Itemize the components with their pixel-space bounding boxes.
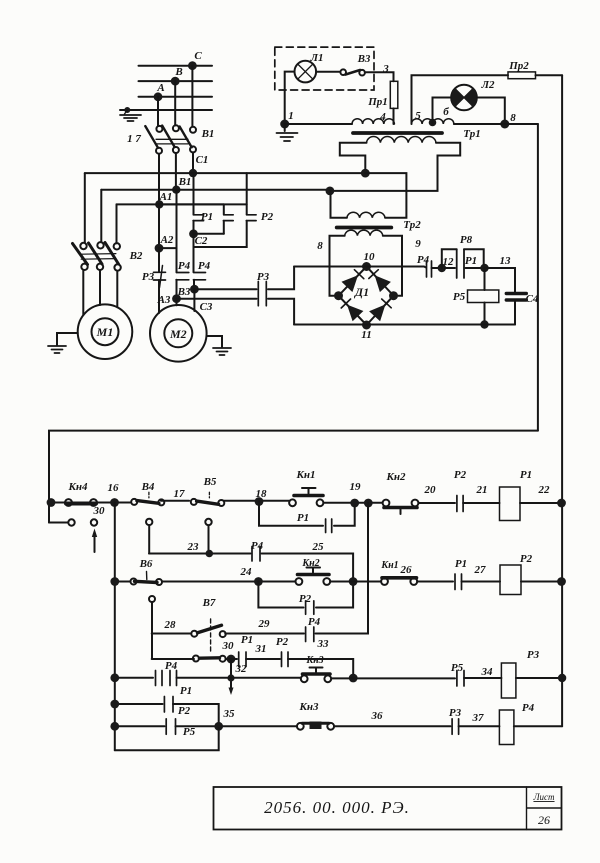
ground M2 — [207, 336, 222, 347]
switch B1 pole1 — [156, 126, 162, 132]
svg-text:Кн4: Кн4 — [67, 481, 88, 493]
switch B1 coupling bar — [156, 139, 188, 144]
node 30 — [227, 655, 236, 664]
wire L1 left to node 1 — [285, 72, 295, 124]
contact P1 (power, two poles) — [159, 203, 224, 205]
svg-text:Р1: Р1 — [520, 469, 532, 481]
wire B down to B1 — [174, 81, 176, 125]
svg-text:32: 32 — [235, 663, 248, 675]
control feed top wire — [49, 431, 538, 523]
node 25 — [349, 577, 358, 586]
title block frame — [214, 787, 562, 830]
wire A3 to motor — [176, 299, 178, 306]
wire 33 — [288, 659, 353, 678]
svg-text:А1: А1 — [159, 191, 173, 203]
svg-text:В1: В1 — [201, 128, 215, 140]
button Kn3 NC rung5 — [297, 723, 304, 730]
wire C down to B1 — [191, 66, 193, 126]
wires B2 to motor M1 — [83, 270, 117, 315]
svg-text:18: 18 — [256, 488, 268, 500]
svg-text:9: 9 — [415, 238, 421, 250]
rung3 wire — [115, 677, 153, 679]
svg-text:Р2: Р2 — [178, 705, 191, 717]
svg-text:27: 27 — [474, 564, 487, 576]
node C1 — [189, 169, 197, 177]
wire C2 column — [193, 173, 195, 204]
wire Kn1 to 19 — [323, 502, 382, 504]
wire 22 — [520, 502, 562, 504]
svg-text:В5: В5 — [203, 476, 217, 488]
wire B1 to P4 contact — [176, 190, 178, 273]
switch B7 — [191, 631, 197, 637]
svg-text:Кн3: Кн3 — [305, 655, 323, 666]
node rung3-rail — [558, 674, 566, 682]
svg-text:А: А — [156, 82, 164, 94]
wire B3 to motor — [193, 289, 195, 311]
rail from node 8 down — [537, 124, 539, 431]
svg-text:Кн2: Кн2 — [385, 471, 406, 483]
svg-text:20: 20 — [424, 484, 437, 496]
switch B5 — [191, 499, 197, 505]
node 32 cross — [227, 674, 234, 681]
node PE — [124, 107, 130, 113]
svg-text:31: 31 — [255, 643, 267, 655]
svg-text:В3: В3 — [177, 286, 191, 298]
braking line upper (B3 to P3) — [194, 267, 294, 290]
arrow 32 — [230, 659, 232, 689]
wire to node 35 — [176, 725, 298, 727]
wire L2 right to node 8 — [477, 98, 505, 125]
switch B2 pole2 — [97, 242, 103, 248]
diode D1a — [342, 275, 359, 292]
SECTION:LABELS — [67, 50, 550, 738]
svg-text:11: 11 — [361, 329, 371, 341]
phase line B — [139, 80, 213, 82]
svg-text:С4: С4 — [526, 293, 539, 305]
wire 13 to C4 — [485, 268, 516, 292]
svg-text:4: 4 — [379, 111, 386, 123]
svg-text:8: 8 — [510, 112, 516, 124]
node A2 — [155, 244, 164, 253]
button Kn4 NC — [65, 499, 72, 506]
node 33 — [349, 674, 358, 683]
wire C2 to P4 contact — [193, 234, 195, 272]
node C2 — [189, 229, 198, 238]
svg-text:Р3: Р3 — [142, 271, 155, 283]
phase line C — [139, 65, 213, 67]
wire C1 feed line — [85, 172, 366, 174]
row29 wire — [225, 503, 368, 634]
svg-text:Р2: Р2 — [454, 469, 467, 481]
svg-text:2056. 00. 000. РЭ.: 2056. 00. 000. РЭ. — [264, 798, 410, 817]
svg-text:Р1: Р1 — [297, 512, 309, 524]
bridge D1 diamond — [339, 267, 394, 326]
Tr2 secondary right lead to bridge — [383, 236, 402, 296]
ground M1 — [57, 333, 78, 345]
wire B3 to fuse Pr1 — [365, 72, 394, 81]
contact P1 (dc) plates — [457, 249, 464, 278]
svg-text:Р1: Р1 — [201, 211, 213, 223]
svg-text:В1: В1 — [178, 176, 192, 188]
node 1 — [280, 120, 289, 129]
svg-text:Р5: Р5 — [183, 726, 196, 738]
svg-text:12: 12 — [443, 256, 455, 268]
svg-text:33: 33 — [317, 638, 330, 650]
wire fuse to winding — [393, 108, 395, 124]
switch 30 — [193, 656, 199, 662]
wire Kn4 to 16 — [97, 502, 130, 504]
wire 26 — [417, 581, 453, 583]
node 24 — [254, 577, 263, 586]
braking line lower (A3 to P3) — [177, 299, 295, 325]
diode D1c — [347, 305, 363, 322]
wire 17 — [161, 500, 189, 502]
wire winding to node 8 and corner — [454, 123, 538, 125]
svg-text:Лист: Лист — [532, 792, 555, 802]
wire C1 to B2 pole1 — [84, 173, 86, 243]
wire line 11 — [294, 324, 515, 326]
relay coil P4 — [499, 710, 514, 745]
svg-text:Д1: Д1 — [354, 285, 369, 299]
svg-text:Р8: Р8 — [460, 234, 473, 246]
wire to node 12 — [432, 267, 442, 269]
button Kn2 NO — [296, 578, 303, 585]
contact P1 plates rung2 — [455, 574, 462, 590]
wire rung3 right — [331, 677, 455, 679]
switch B2 pole3 — [114, 243, 120, 249]
svg-text:26: 26 — [538, 813, 550, 827]
switch B2 pole1 — [80, 243, 86, 249]
Tr2 core — [337, 226, 392, 230]
diode D1b — [375, 275, 391, 292]
svg-text:26: 26 — [400, 564, 413, 576]
wire A1 feed line — [117, 203, 247, 205]
node rail2-rung3 — [110, 673, 119, 682]
node 8 — [500, 120, 509, 129]
wire 27 — [462, 581, 501, 583]
rung5 wire — [115, 725, 165, 727]
wire A1 to B2 pole3 — [116, 204, 118, 243]
svg-text:30: 30 — [222, 640, 235, 652]
contact P4 no2 — [193, 273, 205, 280]
motor M1 — [78, 304, 133, 359]
svg-text:Л2: Л2 — [480, 79, 495, 91]
node 10 — [362, 262, 371, 271]
svg-text:В4: В4 — [141, 481, 155, 493]
switch B1 pole3 — [190, 127, 196, 133]
svg-text:Р4: Р4 — [522, 702, 535, 714]
svg-text:М2: М2 — [169, 327, 187, 341]
button Kn4 pole2 stub — [49, 522, 68, 524]
node Tr2-pri-left — [326, 187, 335, 196]
transformer Tr1 primary winding right — [412, 119, 454, 124]
title block divider — [527, 787, 562, 830]
relay coil P3 — [501, 663, 516, 698]
lamp L1 — [295, 61, 317, 83]
contact P5 plates rung5 — [166, 719, 175, 735]
svg-text:24: 24 — [240, 566, 253, 578]
node 19 — [350, 499, 359, 508]
svg-text:Р3: Р3 — [257, 271, 270, 283]
node A — [154, 92, 163, 101]
svg-text:36: 36 — [371, 710, 384, 722]
svg-text:25: 25 — [312, 541, 325, 553]
rail2 — [114, 503, 116, 751]
rung4 to node35 — [173, 704, 219, 726]
bottom return wire — [115, 728, 219, 750]
svg-text:Р1: Р1 — [455, 558, 467, 570]
contact P3 double plates — [258, 282, 266, 306]
svg-text:Р5: Р5 — [453, 291, 466, 303]
wire 21 — [463, 502, 499, 504]
svg-text:Р1: Р1 — [180, 685, 192, 697]
node 11 — [362, 321, 371, 330]
svg-text:Пр2: Пр2 — [508, 60, 529, 72]
svg-text:В: В — [174, 66, 182, 78]
node B1 — [172, 186, 180, 194]
svg-text:Р4: Р4 — [178, 260, 191, 272]
svg-text:В7: В7 — [202, 597, 216, 609]
contact P2 plates rung1 — [457, 496, 463, 512]
node rail1-rung1 — [47, 498, 56, 507]
transformer Tr1 primary winding left — [352, 119, 394, 124]
wire A2 stub right — [159, 247, 177, 249]
phase line A — [139, 96, 213, 98]
Tr1 secondary left lead step — [340, 143, 367, 173]
contact P3 plates rung5 — [452, 719, 459, 735]
svg-text:21: 21 — [476, 484, 488, 496]
node 13 — [480, 264, 488, 272]
contact P2 hold branch — [258, 582, 353, 608]
button Kn2 NC — [383, 500, 390, 507]
svg-text:35: 35 — [223, 708, 236, 720]
wire rung3 mid — [177, 677, 302, 679]
contact P8 bridge — [442, 249, 484, 268]
switch B4 pole2 stub — [146, 519, 152, 525]
node A3 — [172, 294, 181, 303]
svg-text:Пр1: Пр1 — [367, 96, 388, 108]
svg-text:Р3: Р3 — [527, 649, 540, 661]
Tr1 core — [353, 131, 442, 135]
wire 6 up to lamp L2 — [433, 98, 452, 125]
relay coil P5 — [484, 268, 486, 290]
contact P4 (dc) plates — [427, 261, 432, 277]
wire 31 — [246, 658, 280, 660]
switch B6 — [131, 579, 137, 585]
wire node10 right to P4 — [367, 267, 427, 268]
svg-text:22: 22 — [538, 484, 551, 496]
svg-text:16: 16 — [108, 482, 120, 494]
svg-text:Тр1: Тр1 — [463, 128, 480, 140]
svg-text:30: 30 — [93, 505, 106, 517]
svg-text:23: 23 — [187, 541, 200, 553]
node rail2-rung5 — [110, 722, 119, 731]
svg-text:С3: С3 — [200, 301, 213, 313]
svg-text:17: 17 — [174, 488, 186, 500]
wire coil P3 to rail — [516, 677, 562, 679]
wire C column down to C1 node — [192, 152, 194, 173]
svg-text:Р5: Р5 — [451, 662, 464, 674]
svg-text:А3: А3 — [157, 294, 171, 306]
node D1 left — [334, 291, 343, 300]
wire 37 — [459, 725, 500, 727]
svg-text:Р2: Р2 — [276, 636, 289, 648]
svg-text:С: С — [194, 50, 202, 62]
diode D1d — [369, 305, 385, 322]
contact P2 (power) — [246, 173, 248, 215]
svg-text:Р4: Р4 — [308, 616, 321, 628]
rung4 wire — [115, 703, 163, 705]
node rung2-rail — [557, 577, 566, 586]
node C — [188, 61, 197, 70]
contact P1 hold branch — [259, 502, 355, 526]
switch B5 pole2 stub — [205, 519, 211, 525]
node on line 11 — [480, 320, 488, 328]
contact P3 NC (A2 line) — [158, 248, 160, 272]
svg-text:Кн1: Кн1 — [380, 560, 398, 571]
wire Pr2 to right rail — [536, 74, 563, 76]
svg-text:5: 5 — [415, 110, 421, 122]
wire 20 — [418, 502, 455, 504]
wire 12 to 13 — [445, 267, 455, 269]
dashed enclosure — [275, 47, 374, 90]
svg-text:Р4: Р4 — [198, 260, 211, 272]
fuse Pr1 — [390, 81, 398, 108]
node 16 — [110, 498, 119, 507]
svg-text:1 7: 1 7 — [127, 133, 141, 145]
transformer Tr1 secondary winding — [367, 137, 437, 143]
svg-text:Р3: Р3 — [449, 707, 462, 719]
svg-text:10: 10 — [364, 251, 376, 263]
contact P2 plates row31 — [282, 652, 289, 667]
node 23 — [206, 550, 214, 558]
switch B6 pole2 stub — [149, 596, 155, 602]
svg-text:В3: В3 — [357, 53, 371, 65]
wire A down to B1 — [157, 97, 159, 126]
rung2 wire — [115, 581, 130, 583]
svg-text:1: 1 — [288, 110, 294, 122]
svg-text:Кн2: Кн2 — [301, 558, 319, 569]
contact P4 plates rung3 — [156, 671, 163, 686]
wire A1 to A2 — [158, 204, 160, 248]
contact P5 plates rung3 — [457, 671, 464, 687]
dashed link B7 — [210, 619, 212, 654]
Tr1 primary lead from node1 — [285, 123, 352, 125]
svg-text:Р4: Р4 — [251, 540, 264, 552]
node B3 — [190, 285, 199, 294]
wire coil P4 to rail corner — [514, 725, 562, 727]
contact P2 plates rung4 — [164, 697, 173, 713]
contact P1 plates rung3 — [170, 671, 177, 686]
arrow Kn4 — [94, 536, 96, 552]
switch B4 — [131, 499, 137, 505]
svg-text:А2: А2 — [160, 234, 174, 246]
svg-text:В2: В2 — [129, 250, 143, 262]
svg-text:Р4: Р4 — [417, 254, 430, 266]
wire to 18 — [223, 500, 289, 502]
row30 wire — [152, 658, 194, 660]
node 35 — [214, 722, 223, 731]
fuse Pr2 — [508, 72, 536, 79]
switch B3 — [340, 69, 346, 75]
svg-text:Тр2: Тр2 — [403, 219, 421, 231]
transformer Tr2 primary winding — [347, 212, 385, 218]
wire node10 left — [294, 266, 366, 268]
contact P1 plates row31 — [239, 652, 246, 667]
svg-text:Л1: Л1 — [309, 52, 323, 64]
svg-text:Р1: Р1 — [241, 634, 253, 646]
capacitor C4 — [506, 294, 526, 301]
svg-text:37: 37 — [472, 712, 485, 724]
wire coil P2 to rail — [521, 581, 562, 583]
node rail2-rung4 — [110, 700, 119, 709]
svg-text:Кн3: Кн3 — [298, 701, 319, 713]
transformer Tr2 secondary winding — [345, 230, 383, 236]
svg-text:34: 34 — [481, 666, 494, 678]
svg-text:28: 28 — [164, 619, 177, 631]
ground PE — [125, 110, 128, 114]
svg-text:Р4: Р4 — [165, 660, 178, 672]
button Kn1 NO — [289, 499, 296, 506]
rung1 wire — [49, 502, 65, 504]
svg-text:8: 8 — [317, 240, 323, 252]
right rail from Pr2 — [561, 75, 563, 726]
svg-text:3: 3 — [382, 63, 389, 75]
wire B6 to 24 — [162, 581, 295, 583]
svg-text:С2: С2 — [195, 235, 208, 247]
svg-text:Р2: Р2 — [520, 553, 533, 565]
wire 34 — [464, 677, 501, 679]
button Kn1 NC rung2 — [381, 578, 388, 585]
wire A column down to A1 — [158, 154, 160, 205]
node Tr1-sec-left — [361, 169, 370, 178]
svg-text:Кн1: Кн1 — [295, 469, 315, 481]
wire to Kn1 rung2 — [330, 581, 381, 583]
node A1 — [155, 200, 163, 208]
ground node1 — [284, 124, 286, 131]
node 19b — [364, 499, 373, 508]
Tr1 secondary right lead step — [330, 143, 460, 191]
node B — [171, 77, 180, 86]
button Kn3 NO rung3 — [301, 675, 308, 682]
node 18 — [255, 497, 264, 506]
svg-text:М1: М1 — [96, 325, 114, 339]
wire L1 to B3 — [316, 71, 340, 73]
svg-text:13: 13 — [500, 255, 512, 267]
node rail2-rung2 — [110, 577, 119, 586]
svg-text:19: 19 — [350, 481, 362, 493]
wire 23-25 line — [149, 554, 353, 582]
node D1 right — [389, 291, 398, 300]
svg-text:Р2: Р2 — [299, 593, 312, 605]
wire C2 to P1 poles — [194, 233, 224, 235]
switch B2 coupling bars — [81, 254, 116, 260]
svg-text:В6: В6 — [139, 558, 153, 570]
wire B column down to B1 node — [175, 153, 177, 190]
svg-text:б: б — [443, 106, 449, 118]
neutral line — [120, 109, 212, 111]
contact P4 plates row29 — [306, 627, 314, 642]
relay coil P2 — [500, 565, 521, 595]
wire node to Tr2 primary left — [331, 191, 347, 218]
row28 wire — [152, 633, 191, 635]
node 6 — [429, 119, 437, 127]
motor M2 — [150, 305, 207, 362]
wire node to Tr2 primary right — [365, 173, 406, 218]
svg-text:Р2: Р2 — [261, 211, 274, 223]
node 22 — [557, 499, 566, 508]
contact P4 no1 — [176, 273, 189, 280]
